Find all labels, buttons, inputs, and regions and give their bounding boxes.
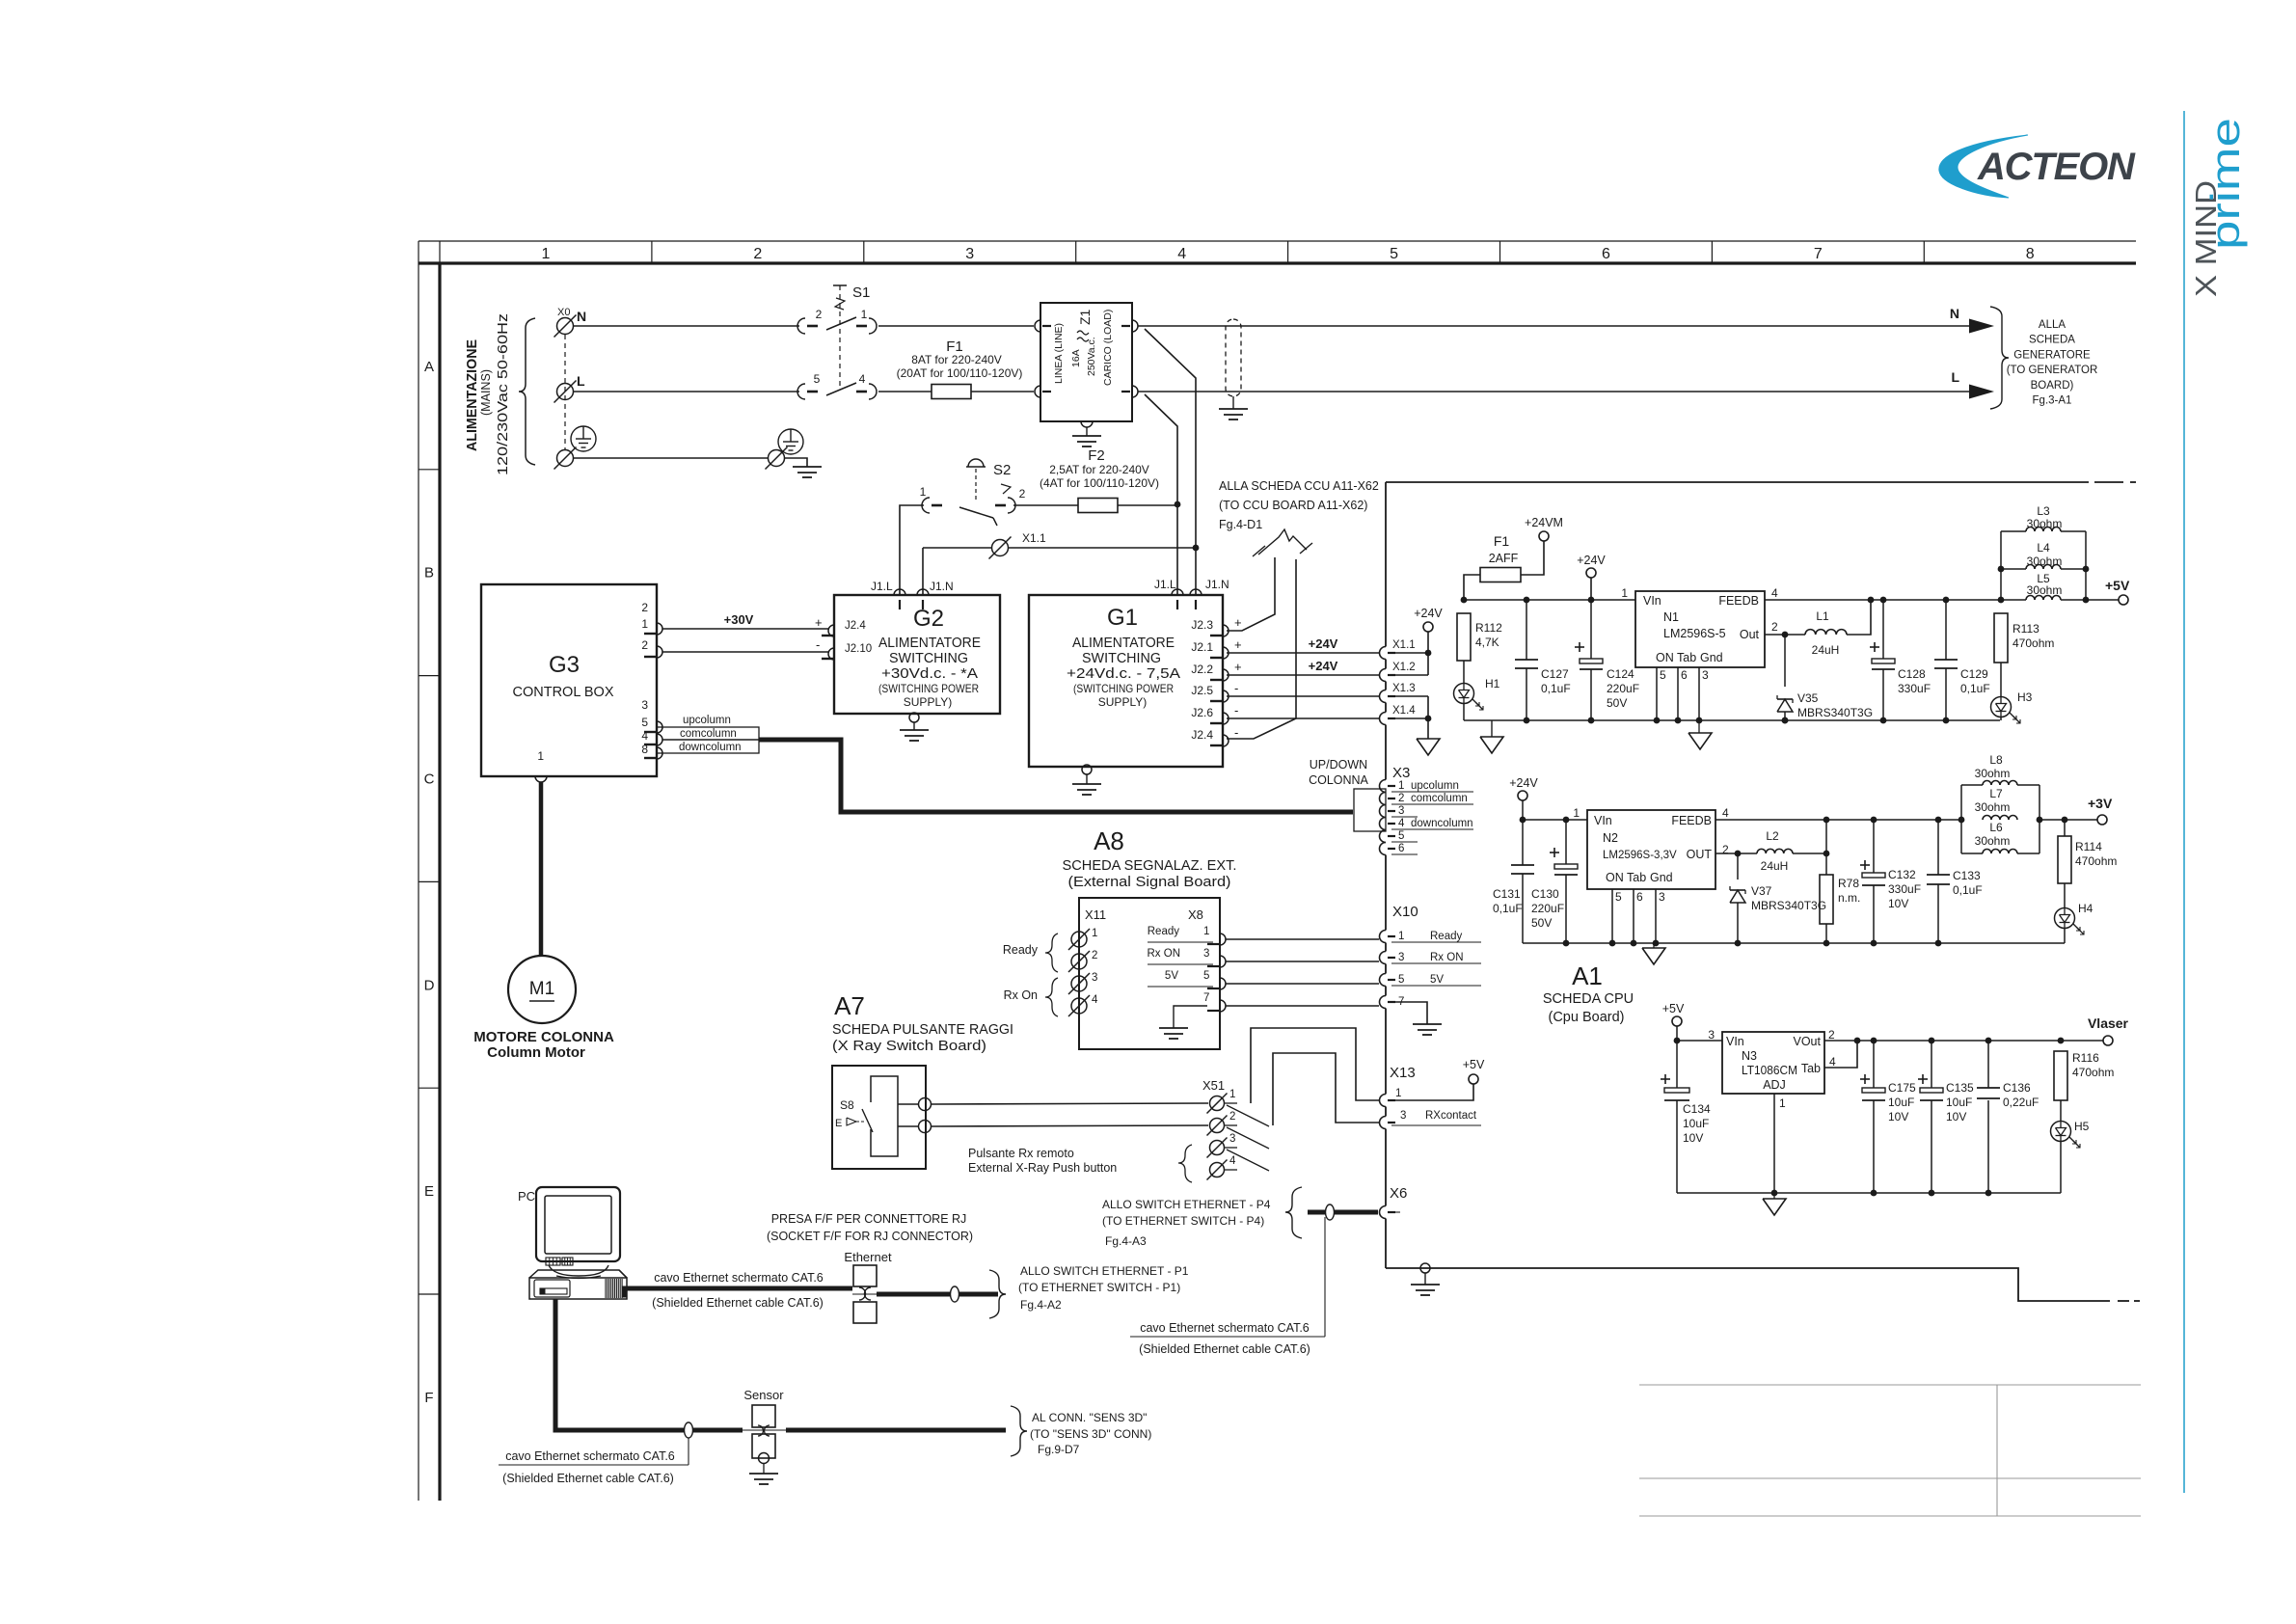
svg-text:FEEDB: FEEDB [1671, 814, 1712, 827]
svg-text:4: 4 [1829, 1055, 1836, 1069]
svg-text:LT1086CM: LT1086CM [1742, 1064, 1797, 1077]
svg-text:J2.3: J2.3 [1191, 618, 1213, 632]
svg-text:A1: A1 [1572, 961, 1603, 990]
svg-text:Tab: Tab [1627, 871, 1646, 884]
svg-text:2: 2 [816, 308, 823, 321]
svg-text:+24V: +24V [1509, 776, 1538, 790]
svg-text:C136: C136 [2003, 1081, 2031, 1095]
svg-text:1: 1 [1398, 931, 1404, 942]
svg-text:X0: X0 [557, 307, 570, 318]
svg-text:CARICO (LOAD): CARICO (LOAD) [1102, 310, 1114, 386]
svg-text:Ready: Ready [1148, 926, 1179, 937]
svg-text:220uF: 220uF [1607, 682, 1639, 695]
svg-text:J2.4: J2.4 [1191, 728, 1213, 742]
svg-text:ALIMENTATORE: ALIMENTATORE [1072, 636, 1175, 651]
svg-text:0,1uF: 0,1uF [1493, 902, 1523, 915]
svg-text:5: 5 [641, 716, 648, 729]
svg-text:250Va.c.: 250Va.c. [1086, 337, 1097, 376]
svg-text:10uF: 10uF [1946, 1096, 1972, 1109]
svg-text:X1.2: X1.2 [1392, 662, 1416, 673]
svg-text:6: 6 [1636, 890, 1643, 904]
svg-text:A: A [424, 359, 434, 375]
svg-text:PRESA F/F PER CONNETTORE RJ: PRESA F/F PER CONNETTORE RJ [771, 1212, 967, 1226]
svg-text:SCHEDA SEGNALAZ. EXT.: SCHEDA SEGNALAZ. EXT. [1063, 858, 1237, 874]
svg-text:10V: 10V [1683, 1131, 1703, 1145]
svg-text:(External Signal Board): (External Signal Board) [1068, 875, 1231, 890]
svg-text:n.m.: n.m. [1838, 891, 1860, 905]
svg-text:5: 5 [1203, 970, 1209, 982]
svg-text:4: 4 [1092, 994, 1098, 1006]
svg-text:SUPPLY): SUPPLY) [904, 695, 952, 709]
svg-text:L: L [1951, 369, 1959, 385]
svg-text:CONTROL BOX: CONTROL BOX [512, 685, 613, 700]
svg-text:F: F [424, 1390, 433, 1406]
svg-text:1: 1 [537, 749, 544, 763]
svg-text:470ohm: 470ohm [2072, 1066, 2114, 1079]
svg-text:50V: 50V [1531, 916, 1552, 930]
svg-text:BOARD): BOARD) [2031, 380, 2074, 392]
svg-text:OUT: OUT [1687, 848, 1713, 861]
svg-text:1: 1 [920, 485, 927, 499]
svg-text:F2: F2 [1088, 447, 1105, 464]
svg-text:+5V: +5V [1662, 1002, 1685, 1015]
svg-text:+3V: +3V [2088, 796, 2113, 811]
svg-text:Pulsante Rx remoto: Pulsante Rx remoto [968, 1147, 1074, 1160]
svg-text:X1.1: X1.1 [1392, 639, 1416, 651]
svg-text:2: 2 [1398, 793, 1404, 804]
svg-text:10V: 10V [1888, 1110, 1908, 1123]
svg-text:H4: H4 [2078, 902, 2093, 915]
svg-text:L4: L4 [2037, 541, 2050, 555]
svg-text:R78: R78 [1838, 877, 1859, 890]
svg-text:1: 1 [1621, 586, 1628, 600]
svg-text:G1: G1 [1107, 605, 1138, 631]
svg-text:J1.N: J1.N [1205, 578, 1229, 591]
svg-text:1: 1 [1779, 1096, 1786, 1110]
svg-text:Ethernet: Ethernet [844, 1250, 892, 1264]
svg-text:3: 3 [1708, 1028, 1715, 1042]
svg-text:E: E [835, 1118, 842, 1129]
svg-text:V35: V35 [1797, 691, 1819, 705]
svg-text:7: 7 [1814, 246, 1823, 262]
svg-text:Gnd: Gnd [1650, 871, 1673, 884]
svg-text:H5: H5 [2074, 1120, 2090, 1133]
svg-text:N: N [1950, 306, 1959, 321]
svg-text:L7: L7 [1989, 787, 2003, 800]
svg-text:UP/DOWN: UP/DOWN [1310, 758, 1367, 771]
svg-text:4: 4 [1229, 1155, 1236, 1167]
svg-text:J1.L: J1.L [1154, 578, 1176, 591]
svg-text:J1.L: J1.L [871, 580, 893, 593]
svg-text:C: C [424, 771, 435, 788]
svg-text:cavo Ethernet schermato CAT.6: cavo Ethernet schermato CAT.6 [505, 1449, 675, 1463]
svg-text:C131: C131 [1493, 887, 1521, 901]
svg-text:6: 6 [1398, 843, 1404, 854]
svg-text:N3: N3 [1742, 1049, 1757, 1063]
svg-text:COLONNA: COLONNA [1309, 773, 1368, 787]
svg-text:+: + [815, 615, 823, 630]
svg-text:A8: A8 [1094, 826, 1124, 855]
svg-text:+24V: +24V [1309, 659, 1338, 673]
svg-text:(Cpu Board): (Cpu Board) [1549, 1010, 1625, 1025]
svg-text:-: - [816, 637, 820, 652]
svg-text:LM2596S-5: LM2596S-5 [1663, 627, 1726, 640]
svg-text:FEEDB: FEEDB [1718, 594, 1759, 608]
svg-text:5: 5 [1615, 890, 1622, 904]
svg-text:Out: Out [1740, 628, 1760, 641]
svg-text:10uF: 10uF [1888, 1096, 1914, 1109]
svg-text:PC: PC [518, 1189, 535, 1204]
svg-text:3: 3 [1203, 948, 1209, 960]
svg-text:SWITCHING: SWITCHING [889, 651, 968, 666]
svg-text:ALLA SCHEDA CCU A11-X62: ALLA SCHEDA CCU A11-X62 [1219, 479, 1379, 493]
svg-text:(SOCKET F/F FOR RJ CONNECTOR): (SOCKET F/F FOR RJ CONNECTOR) [767, 1230, 973, 1243]
svg-text:3: 3 [1398, 952, 1404, 963]
svg-text:7: 7 [1203, 992, 1209, 1004]
svg-text:L2: L2 [1766, 829, 1779, 843]
svg-text:Fg.4-A3: Fg.4-A3 [1105, 1234, 1147, 1248]
svg-text:5V: 5V [1430, 974, 1444, 986]
svg-text:S8: S8 [840, 1098, 854, 1112]
svg-text:upcolumn: upcolumn [1411, 780, 1459, 792]
svg-text:30ohm: 30ohm [1975, 834, 2011, 848]
svg-text:1: 1 [861, 308, 868, 321]
svg-text:Column Motor: Column Motor [487, 1044, 585, 1061]
svg-text:10V: 10V [1888, 897, 1908, 910]
svg-text:4: 4 [1722, 806, 1729, 820]
svg-text:X13: X13 [1390, 1065, 1416, 1081]
svg-text:0,22uF: 0,22uF [2003, 1096, 2039, 1109]
svg-text:1: 1 [641, 617, 648, 631]
svg-text:VIn: VIn [1726, 1035, 1744, 1048]
svg-text:50V: 50V [1607, 696, 1627, 710]
svg-text:+: + [1234, 637, 1242, 652]
svg-text:downcolumn: downcolumn [1411, 818, 1473, 829]
svg-text:+24V: +24V [1414, 607, 1443, 620]
svg-text:5: 5 [1398, 830, 1404, 842]
svg-text:upcolumn: upcolumn [683, 715, 731, 726]
svg-text:4,7K: 4,7K [1475, 636, 1499, 649]
svg-text:C134: C134 [1683, 1102, 1711, 1116]
svg-text:+24V: +24V [1309, 636, 1338, 651]
svg-text:AL CONN. "SENS 3D": AL CONN. "SENS 3D" [1032, 1411, 1147, 1424]
svg-text:RXcontact: RXcontact [1425, 1110, 1477, 1122]
svg-text:SCHEDA PULSANTE RAGGI: SCHEDA PULSANTE RAGGI [832, 1022, 1013, 1038]
svg-text:S1: S1 [852, 284, 870, 301]
svg-text:10V: 10V [1946, 1110, 1966, 1123]
svg-text:6: 6 [1681, 668, 1688, 682]
svg-text:X51: X51 [1202, 1078, 1225, 1093]
svg-text:470ohm: 470ohm [2012, 636, 2054, 650]
svg-text:2: 2 [1229, 1111, 1235, 1123]
svg-text:Rx On: Rx On [1004, 988, 1038, 1002]
svg-text:H3: H3 [2017, 690, 2033, 704]
svg-text:-: - [1234, 703, 1238, 717]
svg-text:G3: G3 [549, 652, 580, 678]
svg-text:4: 4 [641, 729, 648, 743]
svg-text:VIn: VIn [1643, 594, 1661, 608]
svg-text:SUPPLY): SUPPLY) [1098, 695, 1147, 709]
svg-text:Sensor: Sensor [743, 1388, 784, 1402]
svg-text:2: 2 [1771, 620, 1778, 634]
svg-text:3: 3 [1398, 805, 1404, 817]
svg-text:2: 2 [1092, 950, 1097, 961]
svg-text:0,1uF: 0,1uF [1541, 682, 1571, 695]
svg-text:Ready: Ready [1003, 943, 1039, 957]
svg-text:3: 3 [1702, 668, 1709, 682]
svg-text:A7: A7 [834, 991, 865, 1020]
svg-text:J2.1: J2.1 [1191, 640, 1213, 654]
svg-text:C175: C175 [1888, 1081, 1916, 1095]
svg-text:470ohm: 470ohm [2075, 854, 2117, 868]
svg-text:5: 5 [814, 372, 821, 386]
svg-text:0,1uF: 0,1uF [1960, 682, 1990, 695]
svg-text:5V: 5V [1165, 970, 1178, 982]
svg-text:C130: C130 [1531, 887, 1559, 901]
svg-text:MOTORE COLONNA: MOTORE COLONNA [473, 1029, 614, 1045]
svg-text:LINEA (LINE): LINEA (LINE) [1053, 323, 1065, 384]
svg-text:External X-Ray Push button: External X-Ray Push button [968, 1161, 1117, 1175]
svg-text:24uH: 24uH [1761, 859, 1789, 873]
svg-text:(X Ray Switch Board): (X Ray Switch Board) [832, 1039, 986, 1054]
svg-text:J2.4: J2.4 [845, 620, 866, 632]
svg-text:ON: ON [1656, 651, 1674, 664]
svg-text:330uF: 330uF [1888, 882, 1921, 896]
svg-text:6: 6 [1602, 246, 1610, 262]
svg-text:L: L [577, 373, 585, 389]
svg-text:C135: C135 [1946, 1081, 1974, 1095]
svg-text:1: 1 [1203, 926, 1209, 937]
svg-text:(MAINS): (MAINS) [478, 369, 493, 416]
svg-text:(Shielded Ethernet cable CAT.6: (Shielded Ethernet cable CAT.6) [502, 1472, 674, 1485]
svg-text:Tab: Tab [1677, 651, 1696, 664]
svg-text:C132: C132 [1888, 868, 1916, 881]
svg-text:ALLO SWITCH ETHERNET - P1: ALLO SWITCH ETHERNET - P1 [1020, 1264, 1189, 1278]
svg-text:N: N [577, 309, 586, 324]
svg-text:10uF: 10uF [1683, 1117, 1709, 1130]
svg-text:(SWITCHING POWER: (SWITCHING POWER [878, 682, 979, 695]
svg-text:L8: L8 [1989, 753, 2003, 767]
svg-text:ALLO SWITCH ETHERNET - P4: ALLO SWITCH ETHERNET - P4 [1102, 1198, 1271, 1211]
svg-text:1: 1 [541, 246, 550, 262]
svg-text:ACTEON: ACTEON [1977, 146, 2136, 188]
svg-text:comcolumn: comcolumn [1411, 793, 1468, 804]
svg-text:J2.5: J2.5 [1191, 684, 1213, 697]
svg-text:D: D [424, 977, 435, 993]
svg-text:+24V: +24V [1577, 554, 1606, 567]
svg-text:5: 5 [1660, 668, 1666, 682]
svg-text:cavo Ethernet schermato CAT.6: cavo Ethernet schermato CAT.6 [1140, 1321, 1310, 1335]
svg-text:5: 5 [1398, 974, 1404, 986]
svg-text:S2: S2 [993, 462, 1011, 478]
svg-text:X1.1: X1.1 [1022, 531, 1046, 545]
svg-text:F1: F1 [1494, 533, 1510, 549]
svg-text:G2: G2 [913, 606, 944, 632]
svg-text:1: 1 [1229, 1089, 1235, 1100]
svg-text:330uF: 330uF [1898, 682, 1931, 695]
svg-text:5: 5 [1390, 246, 1398, 262]
svg-text:(TO CCU BOARD A11-X62): (TO CCU BOARD A11-X62) [1219, 499, 1367, 512]
svg-text:4: 4 [1398, 818, 1405, 829]
svg-text:Fg.9-D7: Fg.9-D7 [1038, 1443, 1080, 1456]
svg-text:N1: N1 [1663, 610, 1679, 624]
svg-text:(4AT for 100/110-120V): (4AT for 100/110-120V) [1040, 476, 1159, 490]
svg-text:2: 2 [1722, 843, 1729, 856]
svg-text:J2.6: J2.6 [1191, 706, 1213, 719]
svg-text:J2.10: J2.10 [845, 643, 872, 655]
svg-text:(TO GENERATOR: (TO GENERATOR [2007, 365, 2098, 376]
svg-text:X3: X3 [1392, 765, 1410, 781]
svg-text:220uF: 220uF [1531, 902, 1564, 915]
svg-text:X6: X6 [1390, 1185, 1407, 1202]
svg-text:X1.4: X1.4 [1392, 705, 1416, 717]
svg-text:Z1: Z1 [1077, 309, 1093, 325]
svg-text:30ohm: 30ohm [1975, 800, 2011, 814]
svg-text:C129: C129 [1960, 667, 1988, 681]
svg-text:30ohm: 30ohm [2027, 555, 2063, 568]
svg-text:30ohm: 30ohm [2027, 583, 2063, 597]
svg-text:R112: R112 [1475, 621, 1502, 635]
svg-text:(TO "SENS 3D" CONN): (TO "SENS 3D" CONN) [1030, 1427, 1151, 1441]
svg-text:downcolumn: downcolumn [679, 742, 742, 753]
svg-text:C133: C133 [1953, 869, 1981, 882]
svg-text:3: 3 [1229, 1133, 1235, 1145]
svg-text:3: 3 [1400, 1110, 1406, 1122]
svg-text:+5V: +5V [2105, 578, 2130, 593]
svg-text:V37: V37 [1751, 884, 1772, 898]
svg-text:3: 3 [641, 698, 648, 712]
svg-text:+30V: +30V [724, 612, 754, 627]
svg-text:(Shielded Ethernet cable CAT.6: (Shielded Ethernet cable CAT.6) [652, 1296, 824, 1310]
svg-text:ALLA: ALLA [2039, 319, 2066, 331]
svg-text:GENERATORE: GENERATORE [2013, 349, 2091, 361]
svg-text:MBRS340T3G: MBRS340T3G [1751, 899, 1826, 912]
svg-text:30ohm: 30ohm [2027, 517, 2063, 530]
svg-text:2: 2 [641, 601, 648, 614]
svg-text:Tab: Tab [1801, 1062, 1821, 1075]
svg-text:1: 1 [1573, 806, 1580, 820]
svg-text:8: 8 [641, 743, 648, 756]
svg-text:prime: prime [2202, 118, 2248, 250]
svg-text:+24Vd.c. - 7,5A: +24Vd.c. - 7,5A [1067, 666, 1180, 682]
svg-text:B: B [424, 565, 434, 582]
svg-text:X8: X8 [1188, 907, 1203, 922]
svg-text:4: 4 [1177, 246, 1186, 262]
svg-text:N2: N2 [1603, 831, 1618, 845]
svg-text:(TO ETHERNET SWITCH - P1): (TO ETHERNET SWITCH - P1) [1018, 1281, 1180, 1294]
svg-text:30ohm: 30ohm [1975, 767, 2011, 780]
svg-text:1: 1 [1398, 780, 1404, 792]
svg-text:cavo Ethernet schermato CAT.6: cavo Ethernet schermato CAT.6 [654, 1271, 824, 1285]
svg-text:ALIMENTATORE: ALIMENTATORE [878, 636, 981, 651]
svg-text:+: + [1234, 660, 1242, 674]
svg-text:C124: C124 [1607, 667, 1634, 681]
svg-text:Gnd: Gnd [1700, 651, 1723, 664]
svg-text:4: 4 [1771, 586, 1778, 600]
svg-text:VOut: VOut [1794, 1035, 1822, 1048]
svg-text:R113: R113 [2012, 622, 2039, 636]
svg-text:X11: X11 [1085, 907, 1106, 922]
svg-text:SCHEDA CPU: SCHEDA CPU [1543, 991, 1634, 1007]
svg-text:+5V: +5V [1463, 1058, 1485, 1071]
svg-text:8: 8 [2026, 246, 2035, 262]
svg-text:Rx ON: Rx ON [1430, 952, 1464, 963]
svg-text:L6: L6 [1989, 821, 2003, 834]
svg-text:E: E [424, 1183, 434, 1200]
svg-text:-: - [1234, 725, 1238, 740]
svg-text:SWITCHING: SWITCHING [1082, 651, 1161, 666]
svg-text:0,1uF: 0,1uF [1953, 883, 1983, 897]
svg-text:VIn: VIn [1594, 814, 1612, 827]
svg-text:R116: R116 [2072, 1051, 2099, 1065]
svg-text:120/230Vac 50-60Hz: 120/230Vac 50-60Hz [495, 313, 511, 475]
svg-text:R114: R114 [2075, 840, 2102, 853]
svg-text:Ready: Ready [1430, 931, 1462, 942]
svg-text:Rx ON: Rx ON [1148, 948, 1181, 960]
svg-text:-: - [1234, 681, 1238, 695]
svg-text:(TO ETHERNET SWITCH - P4): (TO ETHERNET SWITCH - P4) [1102, 1214, 1264, 1228]
svg-text:J2.2: J2.2 [1191, 663, 1213, 676]
svg-text:2,5AT for 220-240V: 2,5AT for 220-240V [1049, 463, 1149, 476]
svg-text:24uH: 24uH [1812, 643, 1840, 657]
svg-text:+24VM: +24VM [1525, 516, 1563, 529]
svg-text:J1.N: J1.N [930, 580, 954, 593]
svg-text:2: 2 [1828, 1028, 1835, 1042]
svg-text:2: 2 [641, 638, 648, 652]
svg-text:3: 3 [1092, 972, 1097, 984]
svg-text:M1: M1 [529, 979, 554, 999]
svg-text:MBRS340T3G: MBRS340T3G [1797, 706, 1873, 719]
svg-text:LM2596S-3,3V: LM2596S-3,3V [1603, 850, 1677, 861]
svg-text:Vlaser: Vlaser [2088, 1015, 2129, 1031]
svg-text:ADJ: ADJ [1763, 1078, 1786, 1092]
svg-text:2AFF: 2AFF [1489, 552, 1519, 565]
svg-text:16A: 16A [1070, 349, 1082, 367]
svg-text:Fg.4-A2: Fg.4-A2 [1020, 1298, 1062, 1312]
svg-text:(Shielded Ethernet cable CAT.6: (Shielded Ethernet cable CAT.6) [1139, 1342, 1310, 1356]
svg-text:Fg.3-A1: Fg.3-A1 [2033, 395, 2072, 407]
svg-text:2: 2 [753, 246, 762, 262]
svg-text:C128: C128 [1898, 667, 1926, 681]
svg-text:SCHEDA: SCHEDA [2029, 335, 2075, 346]
svg-text:3: 3 [965, 246, 974, 262]
svg-text:L1: L1 [1816, 609, 1829, 623]
svg-text:1: 1 [1092, 928, 1097, 939]
svg-text:H1: H1 [1485, 677, 1500, 690]
svg-text:2: 2 [1019, 487, 1026, 501]
svg-text:X1.3: X1.3 [1392, 683, 1416, 694]
svg-text:+30Vd.c. - *A: +30Vd.c. - *A [881, 666, 978, 682]
svg-text:L3: L3 [2037, 504, 2050, 518]
svg-text:C127: C127 [1541, 667, 1569, 681]
svg-text:X10: X10 [1392, 904, 1418, 920]
svg-text:(20AT for 100/110-120V): (20AT for 100/110-120V) [897, 366, 1023, 380]
svg-text:3: 3 [1659, 890, 1665, 904]
svg-text:+: + [1234, 615, 1242, 630]
svg-text:8AT for 220-240V: 8AT for 220-240V [911, 353, 1002, 366]
svg-text:ON: ON [1606, 871, 1624, 884]
svg-text:comcolumn: comcolumn [680, 728, 737, 740]
svg-text:(SWITCHING POWER: (SWITCHING POWER [1073, 682, 1174, 695]
svg-text:Fg.4-D1: Fg.4-D1 [1219, 518, 1262, 531]
svg-text:4: 4 [859, 372, 866, 386]
svg-text:1: 1 [1395, 1088, 1401, 1099]
